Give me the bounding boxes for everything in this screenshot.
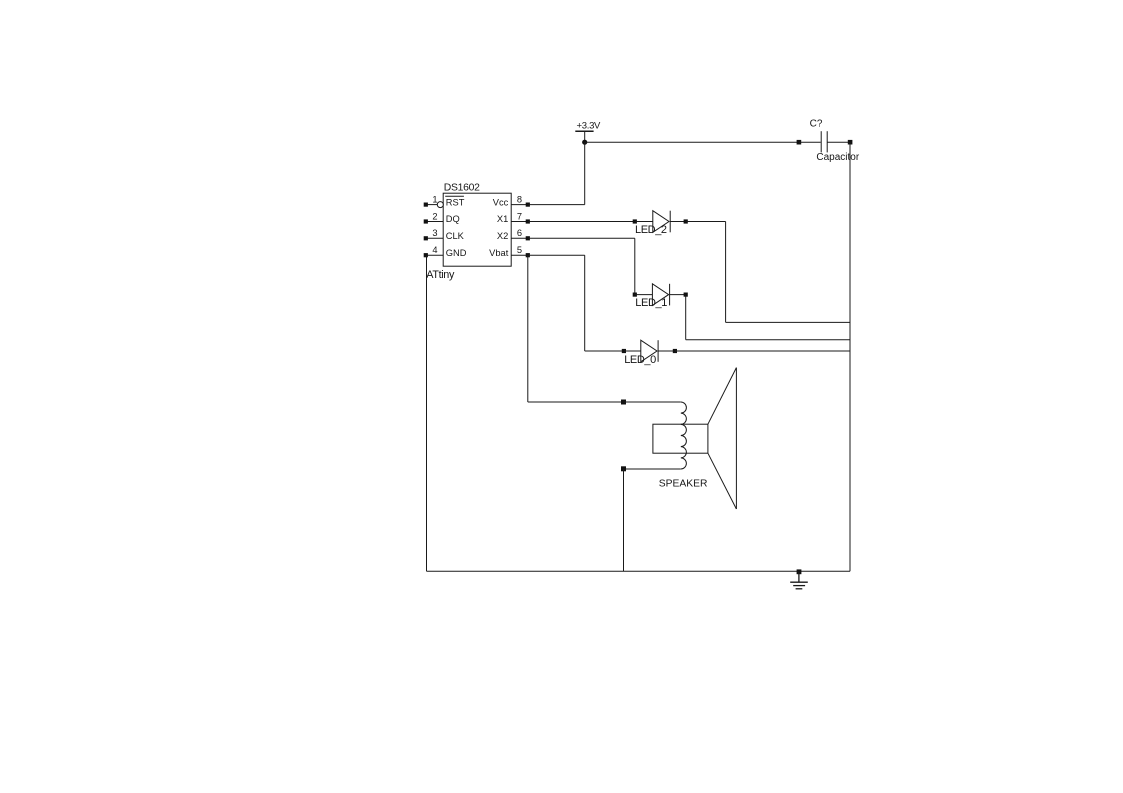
svg-text:Vbat: Vbat	[489, 248, 509, 258]
wire ground net bottom horizontal	[427, 570, 851, 572]
pin 6 X2 stub	[511, 237, 528, 239]
wire speaker top node to coil	[624, 401, 681, 403]
svg-text:5: 5	[517, 245, 522, 255]
pin 3 CLK stub	[426, 237, 443, 239]
svg-text:DS1602: DS1602	[444, 182, 480, 193]
svg-text:DQ: DQ	[446, 214, 460, 224]
node dot capacitor right terminal	[848, 140, 853, 145]
node dot pin 6	[526, 236, 530, 240]
svg-text:SPEAKER: SPEAKER	[659, 478, 708, 489]
node dot capacitor left terminal	[797, 140, 802, 145]
svg-text:LED_0: LED_0	[624, 354, 656, 366]
LED LED_1	[633, 284, 688, 306]
node dot speaker bottom terminal	[621, 466, 626, 471]
capacitor C?	[821, 131, 827, 152]
pin 1 inversion bubble	[437, 202, 443, 208]
pin 5 Vbat stub	[511, 254, 528, 256]
wire Vbat pin 5 to LED_0 anode	[528, 255, 624, 351]
pin label RST with overline	[445, 196, 465, 207]
wire LED_2 cathode to right rail	[686, 222, 850, 323]
svg-text:ATtiny: ATtiny	[426, 269, 455, 281]
pin 4 GND stub	[426, 254, 443, 256]
node dot pin 8	[526, 203, 530, 207]
wire GND pin 4 down left rail	[426, 255, 428, 571]
svg-text:LED_2: LED_2	[635, 224, 667, 236]
svg-text:1: 1	[432, 194, 437, 204]
junction dot at +3.3V node	[582, 140, 587, 145]
pin 8 Vcc stub	[511, 204, 528, 206]
node dot pin 2	[424, 219, 428, 223]
speaker SP1 cone	[708, 368, 737, 509]
node dot pin 1	[424, 203, 428, 207]
wire Vbat pin 5 to speaker top	[528, 255, 624, 402]
pin 1 RST stub	[426, 204, 438, 206]
svg-text:GND: GND	[446, 248, 467, 258]
pin 7 X1 stub	[511, 221, 528, 223]
wire X1 pin 7 to LED_2 anode	[528, 221, 635, 223]
node dot pin 4	[424, 253, 428, 257]
node dot speaker top terminal	[621, 400, 626, 405]
svg-text:2: 2	[432, 211, 437, 221]
node dot pin 5	[526, 253, 530, 257]
junction dot ground node	[797, 569, 802, 574]
wire Vcc pin 8 to +3.3V node	[528, 142, 585, 204]
wire X2 pin 6 to LED_1 anode	[528, 238, 635, 294]
wire LED_0 cathode to right rail	[675, 350, 850, 352]
wire coil bottom to speaker bottom node	[624, 468, 681, 470]
svg-text:8: 8	[517, 194, 522, 204]
wire node to capacitor left plate	[799, 141, 821, 143]
wire LED_1 cathode to right rail	[686, 295, 850, 340]
svg-text:X1: X1	[497, 214, 508, 224]
wire right vertical rail	[849, 142, 851, 571]
node dot pin 7	[526, 219, 530, 223]
svg-text:Vcc: Vcc	[493, 197, 509, 207]
speaker SP1 coil	[681, 402, 687, 469]
svg-text:C?: C?	[810, 119, 823, 130]
svg-text:4: 4	[432, 245, 437, 255]
svg-text:X2: X2	[497, 231, 508, 241]
svg-text:6: 6	[517, 228, 522, 238]
wire speaker bottom node down to ground net	[623, 469, 625, 572]
wire capacitor right plate to node	[827, 141, 850, 143]
svg-text:Capacitor: Capacitor	[816, 152, 859, 163]
pin 2 DQ stub	[426, 221, 443, 223]
svg-text:CLK: CLK	[446, 231, 465, 241]
ground symbol	[790, 571, 808, 588]
power flag +3.3V	[575, 120, 601, 142]
svg-text:RST: RST	[446, 197, 465, 207]
svg-text:3: 3	[432, 228, 437, 238]
svg-text:7: 7	[517, 211, 522, 221]
svg-text:+3.3V: +3.3V	[577, 120, 602, 131]
svg-text:LED_1: LED_1	[635, 297, 667, 309]
speaker SP1 body	[653, 424, 708, 453]
LED LED_0	[622, 340, 677, 362]
LED LED_2	[633, 211, 688, 233]
wire +3.3V node to capacitor C?	[585, 141, 799, 143]
op IC U1 DS1602 body	[443, 193, 511, 266]
node dot pin 3	[424, 236, 428, 240]
